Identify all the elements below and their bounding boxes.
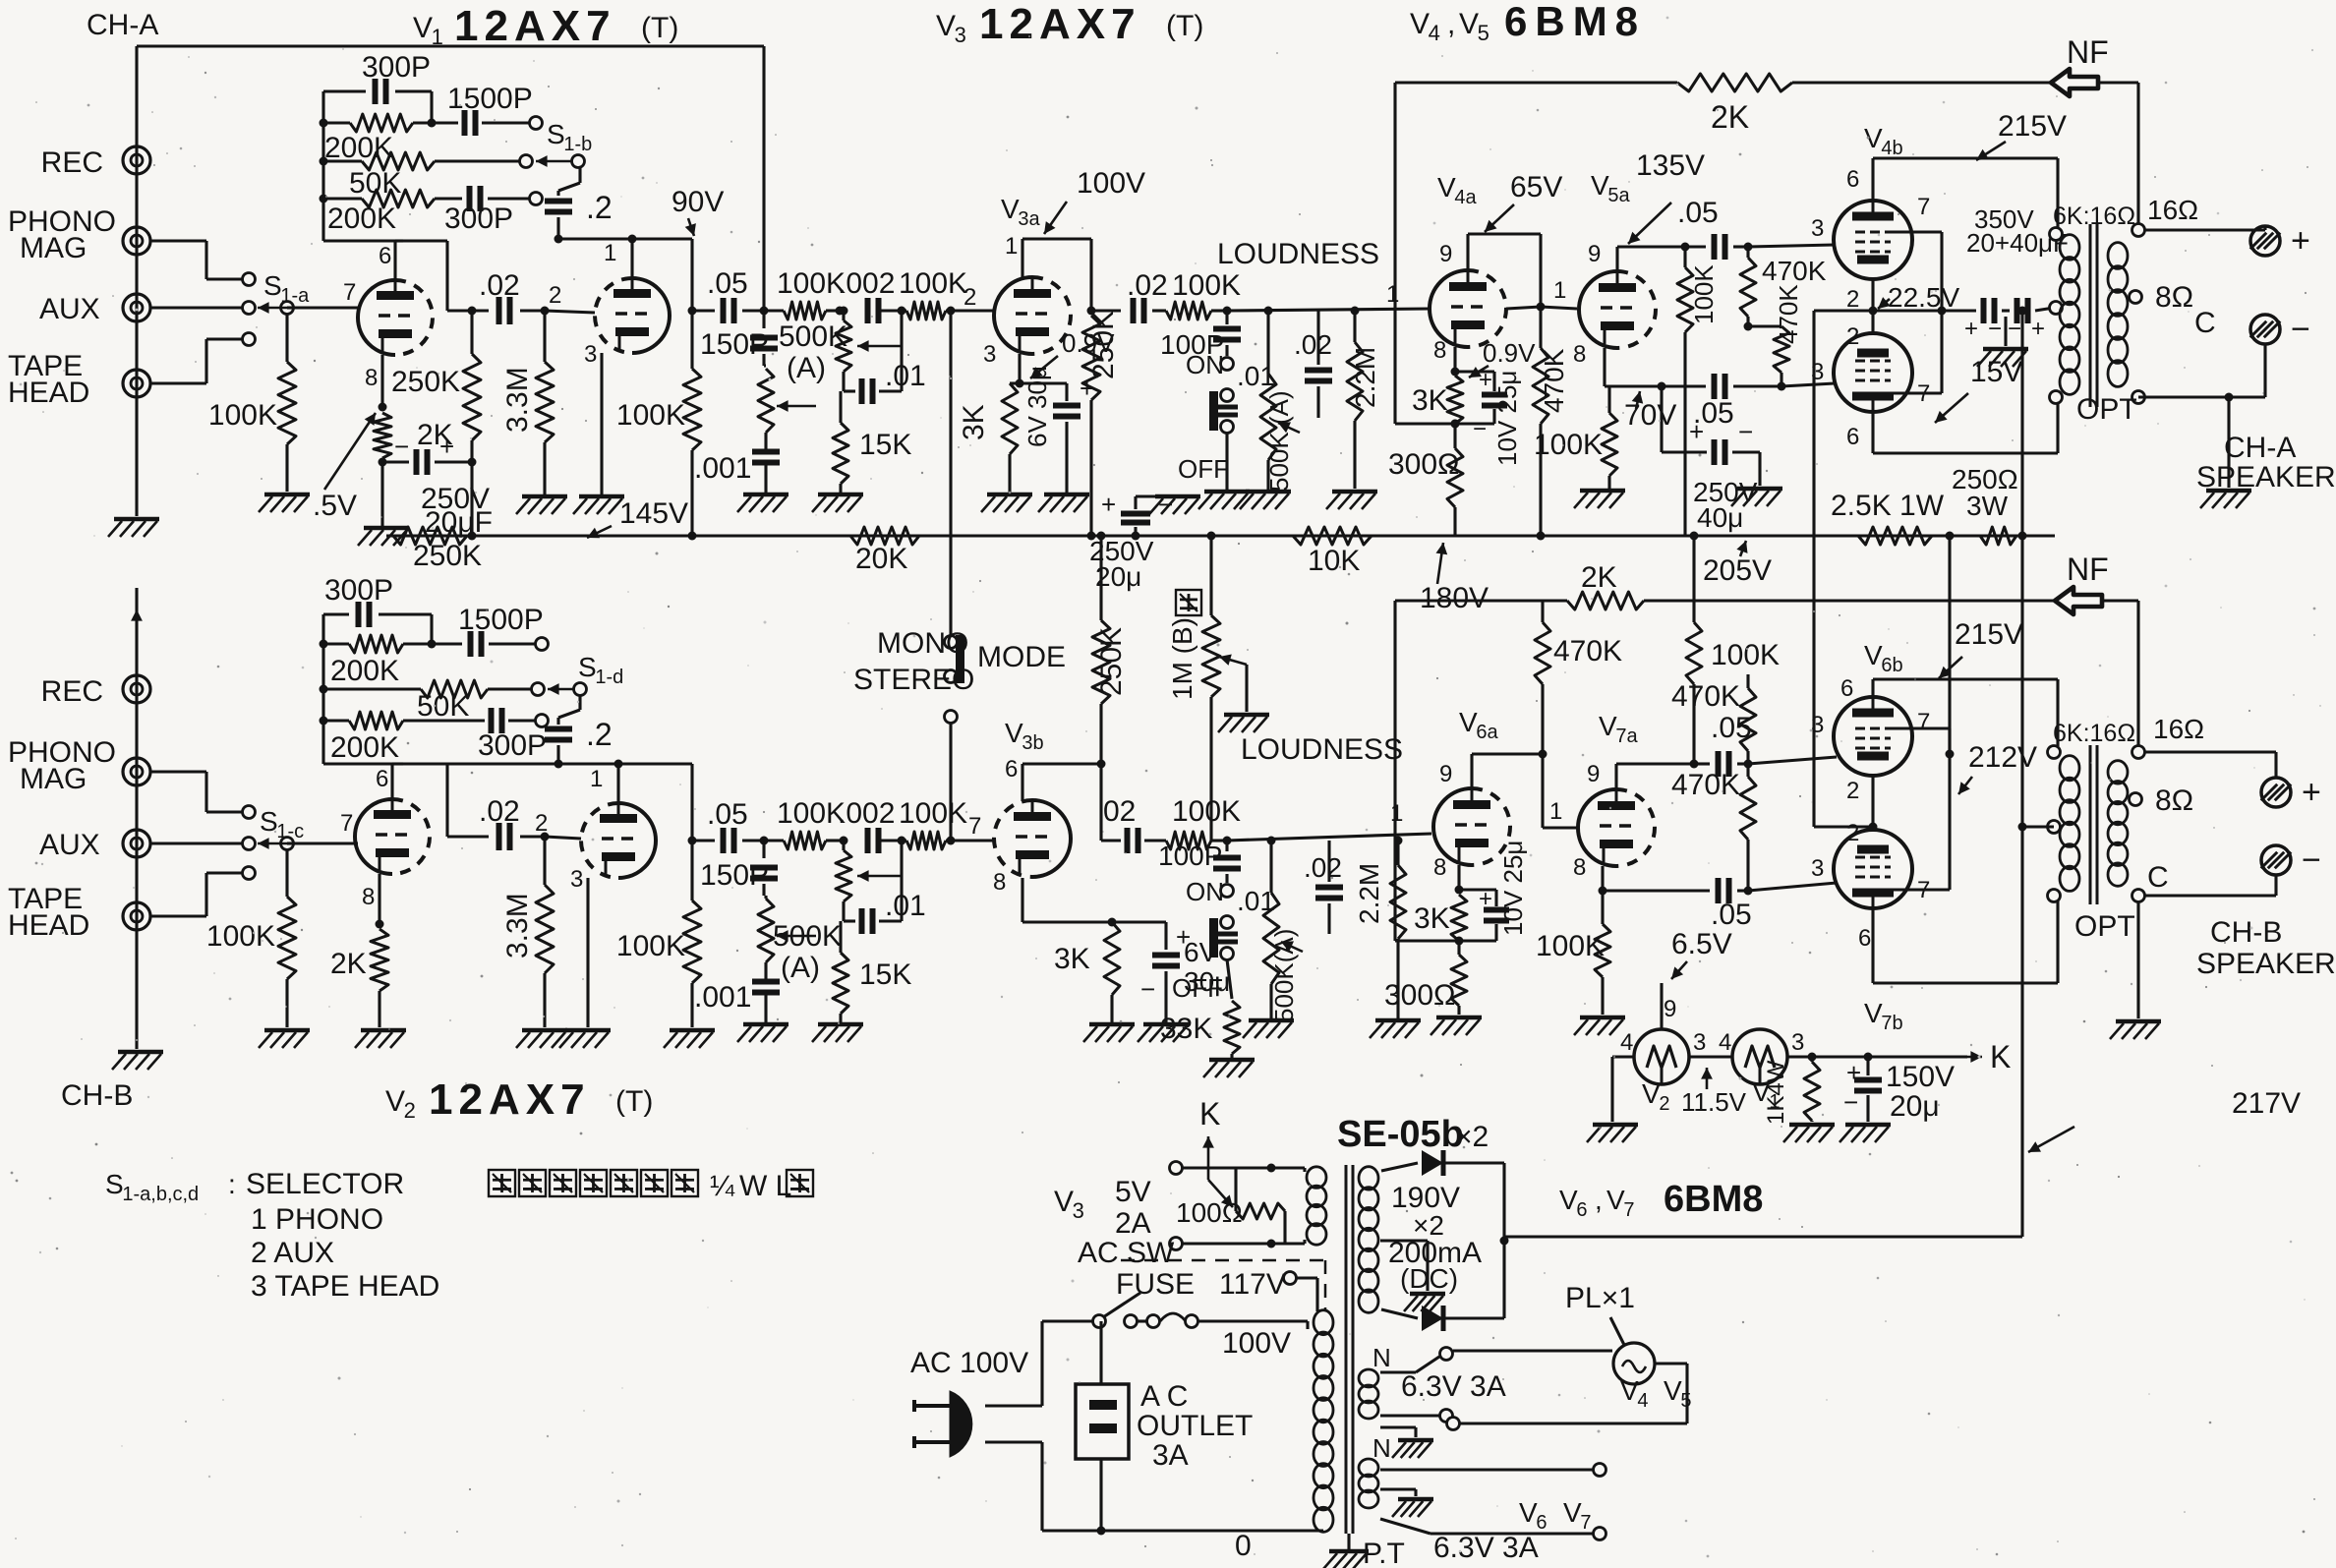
resistor 3.3M B [541, 833, 550, 842]
wire 5V wind top [1236, 1166, 1305, 1169]
resistor 3K V4a [1447, 376, 1463, 424]
svg-text:V: V [385, 1085, 405, 1118]
svg-text:100K: 100K [1534, 429, 1603, 461]
wire NF vertical B [1393, 601, 1396, 941]
svg-text:16Ω: 16Ω [2153, 714, 2204, 744]
svg-text:2A: 2A [1115, 1207, 1151, 1240]
svg-text:OFF: OFF [1178, 454, 1229, 484]
svg-text:.05: .05 [1711, 899, 1752, 931]
svg-text:HEAD: HEAD [8, 909, 89, 942]
svg-text:(A): (A) [787, 352, 826, 384]
transformer OPT B secondary [2108, 761, 2128, 784]
svg-text:9: 9 [1439, 761, 1452, 787]
tube V6b [1834, 697, 1912, 776]
svg-text:V: V [1864, 640, 1883, 670]
svg-text:V: V [1864, 998, 1883, 1028]
wire AUX to selector B [150, 842, 242, 844]
svg-text:HEAD: HEAD [8, 377, 89, 409]
ground 3K V3b [1089, 1022, 1135, 1027]
svg-text:−: − [2291, 311, 2310, 348]
wire V5b plate [1871, 412, 1874, 453]
resistor 100K cathode V5a [1602, 413, 1617, 476]
svg-text:6: 6 [1858, 925, 1871, 952]
ground HV ct [1410, 1292, 1445, 1297]
svg-text:215V: 215V [1998, 110, 2067, 143]
svg-text:1-b: 1-b [563, 134, 592, 155]
resistor 470K grid-leak V4a [1539, 307, 1542, 348]
svg-text:+: + [1479, 367, 1492, 393]
svg-text:S: S [263, 270, 282, 301]
resistor 3K V3a [1002, 383, 1018, 454]
svg-text:65V: 65V [1510, 171, 1562, 203]
svg-text:9: 9 [1664, 996, 1676, 1022]
svg-text:0.9V: 0.9V [1483, 338, 1536, 368]
resistor 200K A2 [323, 197, 362, 200]
resistor 100K loudA [1166, 302, 1211, 319]
svg-text:6: 6 [1846, 166, 1859, 193]
wire V1b plate [630, 239, 633, 278]
svg-text:2 AUX: 2 AUX [251, 1237, 334, 1269]
svg-text:0: 0 [1235, 1530, 1252, 1562]
svg-text:3: 3 [584, 341, 597, 368]
resistor 470K plate V6a [1535, 622, 1550, 684]
svg-text:300P: 300P [324, 574, 393, 607]
resistor 100K series A2 [881, 309, 906, 312]
switch MODE [945, 636, 958, 649]
svg-text:2: 2 [1659, 1093, 1669, 1115]
wire V7a cathode row [1601, 866, 1604, 891]
tube V2a [355, 799, 392, 874]
capacitor .05 A [688, 307, 697, 316]
svg-text:+: + [2302, 774, 2321, 811]
svg-text:OPT: OPT [2076, 393, 2137, 426]
svg-text:STEREO: STEREO [853, 664, 974, 696]
svg-text:LOUDNESS: LOUDNESS [1241, 733, 1403, 766]
svg-text:.001: .001 [694, 981, 751, 1014]
svg-text:470K: 470K [1553, 635, 1622, 668]
resistor 50K B [323, 687, 421, 690]
svg-text:6K:16Ω: 6K:16Ω [2053, 720, 2135, 747]
svg-text:4: 4 [1637, 1390, 1648, 1412]
coil 5V winding [1307, 1167, 1326, 1189]
svg-text:1500P: 1500P [458, 604, 544, 636]
wire V3b cathode [1021, 878, 1023, 922]
resistor 33K B [1227, 959, 1232, 999]
svg-text:3a: 3a [1018, 208, 1040, 230]
capacitor .002 A [865, 298, 871, 323]
ground 3.3M A [522, 494, 567, 499]
svg-text:3: 3 [1693, 1029, 1706, 1056]
wire V3b plate loop [1021, 764, 1023, 801]
wire V6a cathode [1457, 865, 1460, 890]
arrow wiper 1M [1219, 657, 1247, 665]
wire B+ rail 145V [386, 534, 2055, 537]
wire pot ends drop [1234, 1168, 1237, 1211]
svg-text:15K: 15K [859, 429, 911, 461]
svg-text:(T): (T) [615, 1085, 653, 1118]
svg-text:7: 7 [1917, 194, 1930, 220]
svg-text:−: − [1140, 974, 1155, 1004]
switch S1-d [574, 683, 587, 696]
svg-text:CH-A: CH-A [2224, 432, 2296, 464]
wire plate row A [323, 239, 403, 242]
svg-text:K: K [1990, 1039, 2011, 1074]
capacitor .01 B [842, 915, 845, 921]
speaker terminal plus A [2250, 226, 2280, 256]
tube V4a [1430, 270, 1468, 347]
svg-text:6: 6 [1005, 756, 1018, 783]
capacitor 100P A [1225, 311, 1228, 324]
svg-text:S: S [578, 652, 597, 682]
svg-text:470K: 470K [1762, 256, 1827, 286]
wire V4a plate loop [1466, 234, 1469, 270]
svg-text:+: + [1080, 374, 1094, 403]
svg-text:CH-A: CH-A [87, 9, 158, 41]
capacitor .05 lower A [1712, 374, 1718, 399]
wire 300P loop B [323, 612, 349, 615]
wire 6.5V to V2 bias [1660, 983, 1663, 1029]
svg-text:215V: 215V [1955, 618, 2023, 651]
speaker terminal plus B [2261, 778, 2291, 807]
svg-text:2: 2 [1846, 820, 1859, 846]
bias tube V1 [1732, 1029, 1787, 1084]
tube V5b [1834, 333, 1912, 412]
wire V5b screen [1891, 391, 1942, 394]
svg-text:100K: 100K [1536, 930, 1605, 962]
capacitor .2 B [578, 696, 581, 710]
capacitor .05 B [692, 839, 715, 842]
capacitor .02 A [472, 309, 489, 312]
capacitor 6V 30u A [1020, 381, 1067, 384]
resistor 10K rail [1293, 527, 1372, 545]
resistor 100K input A [285, 315, 288, 362]
svg-text:S: S [547, 119, 565, 149]
svg-text:2: 2 [1846, 323, 1859, 350]
potentiometer 500K(A) treble B [836, 850, 851, 901]
svg-text:MONO: MONO [877, 627, 968, 660]
svg-text:470K: 470K [1539, 348, 1569, 413]
wire B+ screen drop [1948, 536, 1951, 890]
svg-text:(T): (T) [641, 12, 678, 44]
svg-text:.001: .001 [694, 452, 751, 485]
svg-text:.05: .05 [707, 267, 748, 300]
svg-text:7: 7 [1623, 1199, 1634, 1221]
wire row to V6a [1227, 834, 1431, 841]
potentiometer 500K(A) treble A [836, 320, 851, 372]
potentiometer 500K(A) loud A [1264, 307, 1273, 316]
svg-text:6.3V 3A: 6.3V 3A [1401, 1370, 1506, 1403]
ground 1M wiper [1224, 713, 1269, 718]
dot rail junctions [1537, 532, 1546, 541]
svg-text:3: 3 [1811, 215, 1824, 242]
jack AUX B [123, 830, 150, 857]
wire volume drop [1209, 536, 1212, 615]
svg-text:100K: 100K [208, 399, 277, 432]
svg-text:20K: 20K [855, 543, 907, 575]
wire V4a cathode [1453, 347, 1456, 372]
wire plug top [985, 1404, 1042, 1407]
wire V4b cathode [1871, 279, 1874, 311]
svg-text:W L: W L [739, 1170, 791, 1202]
resistor 2K cathode A [374, 413, 391, 458]
ground 6V30u B [1143, 1022, 1189, 1027]
ground 3K V3a [987, 493, 1032, 497]
svg-text:100K: 100K [1172, 795, 1241, 828]
wire AUX to selector A [150, 306, 242, 309]
svg-text:70V: 70V [1624, 399, 1676, 432]
svg-text:3 TAPE HEAD: 3 TAPE HEAD [251, 1270, 439, 1303]
ground .001 B [743, 1022, 788, 1027]
svg-text:.01: .01 [885, 890, 926, 922]
svg-text:16Ω: 16Ω [2147, 195, 2198, 225]
svg-text:3K: 3K [1412, 384, 1448, 417]
svg-text:3: 3 [983, 341, 996, 368]
resistor 2K cathode B [371, 929, 388, 991]
svg-text:212V: 212V [1968, 741, 2037, 774]
svg-text:AC 100V: AC 100V [910, 1347, 1028, 1379]
svg-text:100K: 100K [616, 930, 685, 962]
svg-text:.05: .05 [1677, 197, 1719, 229]
resistor 470K upper B [1740, 688, 1756, 751]
svg-text:.02: .02 [1304, 852, 1342, 883]
wire V4a grid row [1506, 307, 1541, 309]
svg-text:.01: .01 [885, 360, 926, 392]
resistor 100K series B2 [881, 839, 906, 842]
wire V1a to coupling [403, 239, 447, 242]
dashed shield [1121, 1259, 1325, 1262]
wire lamp loop [1655, 1362, 1687, 1365]
ground V2b cathode [565, 1028, 611, 1033]
arrow wiper treble A [857, 345, 902, 348]
ground OPT A [2227, 397, 2230, 488]
wire NF vertical A [1393, 83, 1396, 424]
capacitor 6V 30u B [1164, 922, 1167, 950]
svg-text:6: 6 [379, 243, 391, 269]
svg-text:ON: ON [1186, 350, 1224, 379]
resistor 50K A [323, 159, 362, 162]
svg-text:1: 1 [1549, 798, 1562, 825]
potentiometer 1M(B) [1202, 615, 1220, 697]
svg-text:−: − [2008, 316, 2021, 342]
svg-text:V: V [1642, 1078, 1661, 1109]
svg-text:+: + [2291, 222, 2310, 260]
svg-text:V: V [1563, 1497, 1582, 1528]
coil 6.3V N1 [1359, 1369, 1378, 1387]
wire NF to cathode B [1395, 939, 1496, 942]
resistor 250ohm 3W rail [1980, 527, 2016, 545]
svg-text:−: − [1988, 316, 2002, 342]
svg-text:.002: .002 [838, 797, 895, 830]
svg-text:8: 8 [1573, 341, 1586, 368]
fuse [1138, 1319, 1148, 1322]
svg-text:12AX7: 12AX7 [454, 2, 616, 50]
wire C to speaker A [2138, 395, 2229, 398]
wire V6b screen [1891, 726, 1950, 729]
wire V2a plate [390, 764, 393, 799]
svg-text:V: V [413, 12, 433, 44]
capacitor 150P B [762, 841, 765, 858]
svg-text:100K: 100K [899, 797, 967, 830]
svg-text:3.3M: 3.3M [501, 893, 534, 958]
wire K line [1612, 1055, 1634, 1058]
coil HV winding [1359, 1167, 1378, 1190]
svg-text:.002: .002 [838, 267, 895, 300]
svg-text:1M (B): 1M (B) [1167, 617, 1197, 700]
svg-text:2K: 2K [1711, 99, 1749, 135]
ground .001 A [743, 493, 788, 497]
svg-text:250K: 250K [391, 366, 460, 398]
svg-text:100K: 100K [777, 797, 846, 830]
ground 100K V5a [1580, 489, 1625, 494]
ground 2.2M A [1332, 490, 1377, 494]
svg-text:470K: 470K [1774, 284, 1803, 344]
svg-text:V: V [1437, 172, 1456, 203]
svg-text:1-c: 1-c [276, 821, 304, 842]
wire B+ bottom [1504, 1235, 2022, 1238]
svg-text:1: 1 [1390, 800, 1403, 827]
svg-text:117V: 117V [1219, 1268, 1286, 1301]
wire NF to cathode [1395, 422, 1494, 425]
switch loudness ON A [1221, 358, 1234, 371]
tube V1a [358, 280, 395, 355]
switch loudness ON B [1221, 885, 1234, 898]
wire top rail drop [762, 46, 765, 311]
svg-text:10V 25μ: 10V 25μ [1492, 371, 1522, 466]
svg-text:6a: 6a [1476, 722, 1498, 743]
svg-text:2: 2 [404, 1098, 416, 1123]
switch S1-b [572, 155, 585, 168]
svg-text:×2: ×2 [1455, 1121, 1489, 1153]
svg-text:180V: 180V [1420, 582, 1489, 614]
svg-text:N: N [1372, 1343, 1391, 1372]
svg-text:150V: 150V [1886, 1061, 1955, 1093]
coil primary winding [1314, 1310, 1333, 1335]
svg-text:3b: 3b [1022, 732, 1043, 754]
resistor 3.3M A [541, 307, 550, 316]
svg-text:FUSE: FUSE [1116, 1268, 1195, 1301]
resistor pot lower B [758, 899, 774, 962]
tube V3a [994, 277, 1032, 354]
resistor 2.5K 1W rail [1858, 527, 1932, 545]
svg-text:3A: 3A [1152, 1439, 1189, 1472]
svg-text:9: 9 [1587, 761, 1600, 787]
svg-text:6.5V: 6.5V [1671, 928, 1732, 960]
svg-text:4: 4 [1719, 1029, 1731, 1056]
svg-text:300P: 300P [478, 729, 547, 762]
svg-text:AUX: AUX [39, 829, 100, 861]
wire HV center tap [1380, 1239, 1428, 1242]
svg-text:5: 5 [1478, 21, 1489, 45]
terminal N2 b [1380, 1519, 1431, 1534]
wire B+ to OPT B [2022, 825, 2054, 828]
svg-text:.02: .02 [1294, 329, 1332, 360]
transformer OPT B core [2089, 745, 2092, 904]
terminal 117V [1284, 1272, 1297, 1285]
tube V3b [1032, 800, 1071, 877]
resistor 470K upper A [1746, 247, 1749, 258]
svg-text:100K: 100K [1689, 264, 1719, 324]
svg-text:V: V [1559, 1185, 1578, 1215]
svg-text:100V: 100V [1077, 167, 1145, 200]
ground 2K B [361, 1028, 406, 1033]
wire V5a plate row [1615, 247, 1618, 271]
resistor 20K rail [850, 527, 919, 545]
resistor pot lower A [764, 364, 766, 367]
svg-text:1K4W: 1K4W [1763, 1060, 1789, 1125]
capacitor 150V 20u bias [1866, 1057, 1869, 1075]
resistor 100K shunt B [688, 837, 697, 845]
svg-text:145V: 145V [619, 497, 688, 530]
wire cathode bus B [1814, 825, 1873, 828]
svg-text:P.T: P.T [1363, 1538, 1405, 1568]
resistor 3K V3b [1104, 922, 1120, 995]
jack TAPE HEAD A [123, 370, 150, 397]
resistor 2K NF A [1677, 74, 1792, 91]
transformer OPT B primary [2048, 746, 2061, 759]
ground loud pot B [1249, 1018, 1294, 1023]
wire V2b plate [616, 764, 619, 803]
capacitor .05 upper A [1712, 234, 1718, 260]
jack PHONO MAG A [123, 227, 150, 255]
svg-text:300P: 300P [444, 203, 513, 235]
capacitor 300P B2 [489, 708, 495, 733]
svg-text:V: V [1459, 8, 1479, 40]
svg-text:100K: 100K [616, 399, 685, 432]
switch S1-a [243, 273, 256, 286]
wire top rail [137, 44, 764, 47]
capacitor .02 loud A [1305, 368, 1332, 374]
svg-text:AUX: AUX [39, 293, 100, 325]
svg-text:20μ: 20μ [1890, 1090, 1940, 1123]
capacitor 1500P B [432, 642, 462, 645]
resistor 200K B1 [323, 642, 349, 645]
ground N2 [1380, 1487, 1416, 1490]
ground 20+40uF [2004, 317, 2007, 346]
ground CH-B bus [118, 1050, 163, 1055]
svg-text:+: + [1964, 316, 1978, 342]
wire PHONO to selector A [150, 239, 206, 242]
svg-text:1: 1 [1553, 277, 1566, 304]
diode rectifier bottom [1381, 1309, 1418, 1318]
svg-text:200K: 200K [324, 132, 393, 164]
wire TAPE to selector B [150, 914, 206, 917]
capacitor 300P A2 [467, 186, 473, 211]
plug AC [950, 1391, 972, 1457]
ground 40u A [1737, 487, 1782, 492]
heater terminal 5V b [1170, 1238, 1183, 1250]
wire NF A [1395, 81, 1677, 84]
svg-text:.2: .2 [586, 190, 613, 225]
tube V4b [1834, 201, 1912, 279]
ground bias cap [1845, 1123, 1891, 1128]
svg-text:8: 8 [362, 884, 375, 910]
svg-text:4b: 4b [1881, 138, 1902, 159]
wire S1-a to V1a grid [295, 306, 358, 309]
svg-text:500K (A): 500K (A) [1264, 390, 1294, 492]
wire K to hum pot [1208, 1180, 1233, 1207]
svg-text:SPEAKER: SPEAKER [2196, 948, 2336, 980]
ground 6V30u A [1044, 493, 1089, 497]
wire V2a to coupling [403, 762, 447, 765]
wire V5b cathode [1871, 311, 1874, 333]
svg-text:135V: 135V [1636, 149, 1705, 182]
wire outlet top [1099, 1321, 1102, 1384]
resistor 470K lower A [1748, 324, 1781, 327]
capacitor .02 B [496, 823, 502, 850]
ground 33K B [1209, 1058, 1255, 1063]
svg-text:A C: A C [1140, 1380, 1188, 1413]
svg-text:22.5V: 22.5V [1888, 282, 1959, 313]
